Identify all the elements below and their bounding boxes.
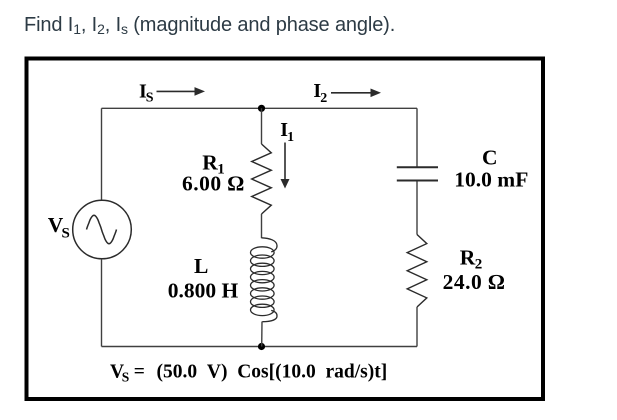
label I2 (313, 80, 327, 106)
label R1 (202, 151, 225, 178)
junction node top (258, 105, 265, 112)
wire: left lower (source to bottom rail) (101, 259, 103, 347)
resistor R2 (407, 235, 427, 308)
value 10.0 mF (454, 168, 528, 192)
current arrow I1 (281, 143, 290, 189)
voltage source Vs (73, 200, 132, 259)
label L (194, 254, 208, 278)
svg-text:R: R (460, 246, 476, 270)
current arrow Is (157, 87, 206, 96)
resistor R1 (252, 144, 272, 214)
value 0.800 H (168, 278, 239, 302)
current arrow I2 (331, 89, 381, 98)
label I1 (280, 119, 294, 145)
wire: top rail (102, 107, 418, 109)
svg-text:C: C (482, 146, 498, 170)
wire: middle branch upper stub (261, 108, 263, 144)
junction node bottom (258, 343, 265, 350)
wire: middle branch lower stub (261, 322, 263, 347)
enclosure (27, 59, 544, 400)
value 24.0 ohm (443, 270, 506, 294)
svg-text:S: S (146, 91, 154, 106)
capacitor C (397, 167, 438, 180)
source equation Vs = (50.0 V) Cos[(10.0 rad/s)t] (110, 361, 387, 384)
wire: right branch lower stub (416, 307, 418, 347)
svg-text:L: L (194, 254, 208, 278)
svg-text:S: S (122, 370, 130, 385)
wire: bottom rail (102, 346, 418, 348)
svg-text:24.0 Ω: 24.0 Ω (443, 270, 506, 294)
svg-text:0.800 H: 0.800 H (168, 278, 239, 302)
svg-text:2: 2 (320, 91, 327, 106)
inductor L (250, 238, 277, 322)
wire: middle branch between R1 and L (261, 214, 263, 238)
svg-text:6.00 Ω: 6.00 Ω (182, 172, 245, 196)
svg-text:10.0 mF: 10.0 mF (454, 168, 528, 192)
label Is (139, 81, 154, 106)
svg-text:=: = (134, 361, 145, 382)
label R2 (460, 246, 483, 273)
wire: right branch upper stub (416, 108, 418, 166)
svg-text:1: 1 (287, 130, 294, 145)
wire: right branch between C and R2 (416, 182, 418, 235)
value 6.00 ohm (182, 172, 245, 196)
svg-text:S: S (62, 226, 70, 242)
label Vs (48, 213, 70, 242)
label C (482, 146, 498, 170)
svg-text:(50.0 V) Cos[(10.0 rad/s)t]: (50.0 V) Cos[(10.0 rad/s)t] (157, 361, 388, 382)
wire: left upper (top rail to source) (101, 108, 103, 200)
title question text (24, 14, 395, 37)
